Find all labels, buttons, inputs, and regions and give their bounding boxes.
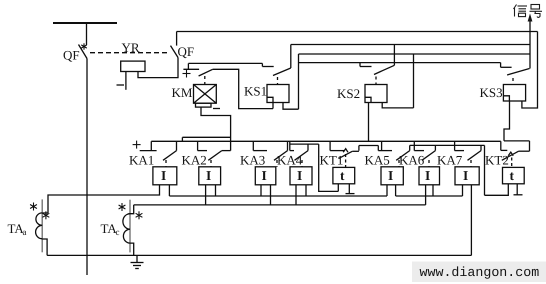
relay box KA7 [455, 167, 479, 185]
contact KA5 drop [381, 141, 383, 150]
contact KA7 bar [455, 150, 464, 152]
svg-text:KS1: KS1 [244, 84, 267, 99]
contact KA3 blade [274, 151, 288, 161]
wire output4 drop to KT2 coil [484, 145, 486, 195]
wire U2 [169, 195, 387, 197]
relay KS3 tab [503, 96, 509, 101]
svg-text:t: t [340, 168, 345, 183]
wire KA1 right pin [168, 185, 170, 196]
wire yA right drop [522, 32, 538, 109]
link KA3 dashed [276, 160, 278, 167]
wire output2 [290, 143, 319, 145]
relay KM box [194, 85, 217, 104]
contact KT2 bar [501, 149, 508, 151]
svg-text:I: I [463, 168, 468, 183]
wire KS1 left pin [272, 103, 274, 109]
svg-text:I: I [262, 168, 267, 183]
busbar top [53, 22, 117, 24]
label minus [117, 84, 125, 86]
contact KA7 drop [454, 141, 456, 150]
transformer TAc primary [129, 200, 131, 253]
svg-text:YR: YR [122, 40, 140, 55]
wire KS3 left pin down [504, 101, 510, 141]
relay KS2 tab [365, 97, 371, 102]
breaker QF2 blade [171, 46, 179, 58]
terminal KT2 tick [514, 194, 523, 196]
wire KA5 riser [409, 145, 411, 150]
wire KS2 left pin to rail [368, 103, 370, 142]
wire KM output [213, 69, 273, 108]
relay box KT1 [333, 167, 355, 183]
label signal 信号 [514, 5, 543, 18]
wire KA3 left pin [260, 185, 262, 196]
star TAc left [119, 203, 126, 211]
node plus feed [187, 63, 189, 69]
wire return bottom [47, 254, 471, 256]
wire KA5 right pin [395, 185, 397, 196]
contact KS2 bar [360, 66, 372, 68]
contact KA7 blade [468, 151, 482, 161]
wire output4 [410, 144, 485, 146]
wire KA4 left pin [295, 185, 297, 205]
mechanical link QF dashed [90, 52, 168, 54]
wire line yB [291, 44, 530, 46]
wire KT1 left pin [337, 184, 339, 192]
relay box KT2 [503, 167, 525, 183]
contact KT2 blade [502, 151, 519, 160]
svg-text:KT2: KT2 [485, 153, 509, 168]
wire TAa top terminal [42, 212, 48, 214]
svg-text:KA3: KA3 [240, 153, 265, 168]
wire KS2 blade riser [393, 45, 395, 66]
wire KT1 riser [358, 146, 360, 151]
wire rail lower [151, 140, 501, 142]
wire L TAc line [134, 204, 426, 206]
relay box KA3 [255, 167, 275, 185]
contact KA1 bar [140, 150, 157, 152]
link KS3 dashed [512, 78, 514, 85]
wire U3 [396, 195, 463, 197]
svg-text:t: t [510, 168, 515, 183]
link KM dashed [204, 76, 206, 85]
wire KT2 right pin [516, 184, 518, 195]
wire KS2 right pin [382, 103, 413, 108]
svg-text:KS3: KS3 [480, 85, 503, 100]
relay KS1 box [267, 85, 289, 103]
svg-text:KA6: KA6 [399, 153, 425, 168]
wire KA2 right pin [215, 185, 217, 196]
relay box KA6 [419, 167, 440, 185]
svg-text:www.diangon.com: www.diangon.com [420, 265, 540, 280]
relay box KA1 [153, 167, 177, 185]
svg-text:KA5: KA5 [365, 153, 390, 168]
wire TAc bottom terminal [130, 243, 134, 255]
wire KA3 riser [287, 141, 289, 150]
svg-text:QF: QF [178, 44, 195, 59]
svg-text:KA7: KA7 [437, 153, 463, 168]
wire line yC [299, 53, 531, 55]
link KT2 dashed [511, 158, 513, 168]
contact KS1 bar [262, 66, 273, 68]
link KS2 dashed [375, 77, 377, 85]
star TAa left [30, 203, 37, 211]
svg-text:QF: QF [63, 48, 80, 63]
signal arrowhead [528, 14, 533, 22]
star TAc right [136, 211, 143, 219]
wire line yA [177, 31, 538, 33]
link KA1 dashed [165, 160, 167, 167]
wire KA2 tip bar [222, 150, 231, 152]
contact KA4 drop [289, 141, 291, 150]
trip coil YR box [121, 61, 145, 71]
link KA5 dashed [398, 160, 400, 167]
contact KS2 blade [374, 65, 394, 74]
wire KA7 left pin [462, 185, 464, 196]
contact KA6 blade [422, 151, 436, 161]
wire KA3 right pin [270, 185, 272, 205]
contact KA5 bar [378, 150, 392, 152]
relay KS1 tab [267, 97, 273, 102]
contact KT1 arrow [343, 149, 348, 153]
wire KA5 left pin [386, 185, 388, 196]
plus lower [133, 141, 141, 149]
contact KA2 blade [208, 151, 222, 161]
wire KA4 right pin [305, 185, 307, 196]
wire output3 drop [377, 146, 379, 151]
svg-text:KA1: KA1 [129, 153, 154, 168]
contact KT2 drop [500, 141, 502, 150]
contact KS2 drop [359, 63, 361, 67]
wire [86, 23, 88, 45]
contact KT1 bar [330, 150, 344, 152]
contact KT1 drop [329, 141, 331, 150]
contact KT1 blade [339, 151, 353, 158]
link KS1 dashed [277, 77, 279, 85]
terminal KT1 tick [346, 193, 355, 195]
contact KA4 blade [295, 151, 309, 161]
svg-text:I: I [297, 168, 302, 183]
wire TAa bottom terminal [42, 239, 47, 255]
svg-text:a: a [23, 227, 27, 237]
wire KA2 left pin [205, 185, 207, 205]
wire KS2 riser to yC [413, 54, 415, 108]
star QF1 [30, 43, 190, 219]
contact KA6 drop [413, 141, 415, 150]
svg-text:KS2: KS2 [337, 86, 360, 101]
wire output2 drop to KT1 coil [319, 144, 339, 191]
contact KA1 blade [163, 151, 177, 161]
relay box KA5 [381, 167, 403, 185]
contact KA2 drop [197, 141, 199, 150]
transformer TAa primary [41, 199, 43, 252]
contact KS3 bar [501, 66, 512, 68]
wire KS1 riser to yC [298, 54, 300, 109]
contact KA6 bar [414, 150, 424, 152]
wire KS1 right pin [283, 103, 299, 110]
contact KM blade [199, 69, 213, 76]
wire KA6 right pin [432, 185, 434, 196]
contact KT2 arrow [508, 152, 513, 156]
svg-text:I: I [206, 168, 211, 183]
wire TAc top terminal [130, 205, 134, 214]
wire feed line KM KS1 [188, 62, 262, 64]
link KT1 dashed [345, 154, 347, 167]
svg-text:I: I [161, 168, 166, 183]
ground [136, 255, 138, 262]
wire KT2 left pin [485, 184, 509, 196]
wire KA7 riser [480, 145, 482, 150]
wire KA1 riser [176, 141, 178, 150]
relay KM pedestal [196, 103, 212, 107]
relay box KA2 [199, 167, 221, 185]
watermark background [412, 262, 546, 283]
wire output3 [359, 145, 378, 147]
relay KS3 box [503, 85, 525, 102]
breaker QF1 blade [79, 45, 88, 59]
transformer TAc winding [123, 214, 130, 243]
contact KS3 blade [507, 69, 529, 76]
contact KS1 drop [261, 63, 263, 66]
plus top [183, 70, 191, 78]
contact KA4 bar [290, 150, 294, 152]
relay KS2 box [365, 85, 387, 103]
contact KS1 blade [273, 68, 291, 76]
link KA4 dashed [301, 160, 303, 167]
wire KA6 left pin [425, 185, 427, 205]
link KA6 dashed [428, 160, 430, 167]
link KA2 dashed [210, 160, 212, 167]
wire U1 TAa to KA1 [48, 185, 160, 213]
contact KS3 drop [500, 63, 502, 68]
star TAa right [43, 211, 50, 219]
relay box KA4 [290, 167, 312, 185]
wire KA6 riser [434, 145, 436, 150]
wire main left vertical [86, 59, 88, 276]
wire KA4 riser [307, 144, 309, 151]
contact KA5 blade [396, 151, 410, 161]
wire output1 drop [181, 137, 183, 141]
svg-text:KA2: KA2 [182, 153, 207, 168]
wire KA7 right pin long [470, 185, 472, 256]
wire KM coil to rail [201, 107, 231, 151]
contact KM bar [183, 68, 199, 70]
transformer TAa winding [36, 213, 43, 239]
svg-text:c: c [116, 227, 120, 237]
wire YR minus pin [125, 72, 127, 90]
wire output1 [182, 136, 230, 138]
svg-text:KM: KM [172, 85, 193, 100]
wire KS1 blade riser [290, 45, 292, 69]
node plus lower [150, 141, 152, 150]
label minus KM [213, 108, 220, 110]
breaker QF2 fixed [176, 32, 178, 46]
contact KA3 drop [252, 141, 254, 150]
contact KA2 bar [198, 150, 207, 152]
signal arrow stem [529, 20, 531, 69]
link KA7 dashed [470, 160, 472, 167]
wire [138, 58, 178, 78]
contact KA3 bar [253, 150, 267, 152]
svg-text:I: I [388, 168, 393, 183]
svg-text:KA4: KA4 [277, 153, 303, 168]
svg-text:KT1: KT1 [320, 153, 344, 168]
svg-text:I: I [425, 168, 430, 183]
wire feed line KS2 KS3 [299, 62, 501, 64]
wire KT1 right pin [348, 184, 350, 194]
